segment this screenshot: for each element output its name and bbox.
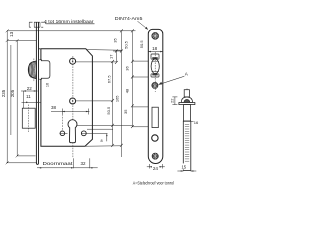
svg-text:24: 24 xyxy=(153,166,159,171)
svg-text:13: 13 xyxy=(9,31,14,37)
svg-text:165: 165 xyxy=(115,95,120,102)
svg-text:17: 17 xyxy=(109,54,114,59)
extension line: case top level to left dims xyxy=(7,39,36,41)
cylinder housing block with dashed centreline xyxy=(22,108,35,128)
svg-text:A: A xyxy=(185,71,189,76)
svg-text:48: 48 xyxy=(124,88,129,93)
roller latch housing (side view) xyxy=(39,60,50,80)
svg-text:11: 11 xyxy=(26,94,31,99)
vertical dimension chain 67.5 / 50.5 xyxy=(112,62,114,146)
dashed vertical centreline of case xyxy=(72,56,74,120)
svg-text:4 tot 16mm instelbaar: 4 tot 16mm instelbaar xyxy=(44,19,94,24)
countersunk screw hole, top of faceplate xyxy=(152,33,159,40)
fixing post hole, lower xyxy=(70,98,76,104)
dimension 15 (thread length) xyxy=(182,163,188,169)
faceplate, edge-on (side view) xyxy=(36,22,38,164)
svg-text:A=Stelschroef voor tonrol: A=Stelschroef voor tonrol xyxy=(133,180,174,185)
svg-text:35: 35 xyxy=(113,38,118,43)
roller bolt assembly (front view) xyxy=(151,54,159,59)
vertical dimension chain 50.5 / 36 / 48 / 35 xyxy=(131,31,133,127)
extension lines to front view features xyxy=(132,60,148,62)
svg-text:22: 22 xyxy=(169,98,174,103)
svg-text:15: 15 xyxy=(181,164,186,169)
svg-text:35: 35 xyxy=(123,109,128,114)
dimension 24 (plate width at bottom) xyxy=(149,164,162,169)
bolt slot cutout in faceplate xyxy=(152,107,158,127)
svg-text:205: 205 xyxy=(10,89,15,97)
svg-text:18: 18 xyxy=(152,46,158,51)
svg-text:36: 36 xyxy=(124,66,129,71)
stelschroef (adjusting screw) dashed centreline xyxy=(186,89,188,164)
faceplate outline (front view) xyxy=(148,29,163,163)
screw head dome xyxy=(181,97,192,103)
lock case outline with chamfered corners (side view) xyxy=(41,49,93,146)
svg-text:Doornmaat: Doornmaat xyxy=(43,161,74,166)
auxiliary dimension line xyxy=(10,45,12,135)
svg-text:50.5: 50.5 xyxy=(139,40,144,49)
screw shaft, plain upper part xyxy=(184,105,191,122)
svg-text:16: 16 xyxy=(194,120,199,125)
screw tip nib xyxy=(184,90,189,97)
euro profile cylinder cutout xyxy=(68,120,77,143)
svg-text:235: 235 xyxy=(1,89,6,97)
shaft junction line xyxy=(183,120,191,122)
fixing post hole, upper xyxy=(70,58,76,64)
vertical dimension chain 35 / 165 xyxy=(120,31,122,157)
dimension line 235 (overall height) xyxy=(6,31,8,163)
leader line from note to adjuster cap xyxy=(46,23,95,25)
dimension 8 (hole diameter) xyxy=(60,133,68,135)
svg-text:8: 8 xyxy=(100,139,102,143)
dimension 16 (shaft) xyxy=(191,120,194,122)
screw flange washer xyxy=(179,103,195,105)
svg-text:16: 16 xyxy=(46,83,50,87)
dimension 17 (vertical chain) xyxy=(115,50,117,62)
screw shaft, threaded lower part xyxy=(183,121,191,170)
svg-text:32: 32 xyxy=(80,161,86,166)
svg-text:22: 22 xyxy=(27,86,33,91)
extension line: faceplate top level xyxy=(7,30,135,32)
dimension line 205 (case-related height) xyxy=(16,40,18,156)
svg-text:50.5: 50.5 xyxy=(123,40,128,49)
round hole in faceplate xyxy=(152,135,158,141)
dimension 22 (screw head height) xyxy=(174,97,176,105)
adjustable roller cap (top of faceplate, side view) xyxy=(29,21,45,23)
adjusting screw A (front view) xyxy=(152,82,158,89)
roller bolt, hatched (side view) xyxy=(28,61,36,79)
svg-text:67.5: 67.5 xyxy=(107,75,112,84)
extension line from lower post xyxy=(76,100,113,102)
svg-text:50.5: 50.5 xyxy=(106,106,111,115)
fixing screw hole, left of cylinder xyxy=(60,131,65,136)
svg-text:DIN74-Am5: DIN74-Am5 xyxy=(115,16,143,21)
extension line from upper post xyxy=(76,61,116,63)
countersunk screw hole, bottom of faceplate xyxy=(152,153,158,159)
fixing screw hole, right of cylinder xyxy=(81,131,86,136)
extension line: case bottom xyxy=(85,145,122,147)
extension line: case top to dimension chains xyxy=(87,49,122,52)
svg-text:38: 38 xyxy=(51,105,57,110)
